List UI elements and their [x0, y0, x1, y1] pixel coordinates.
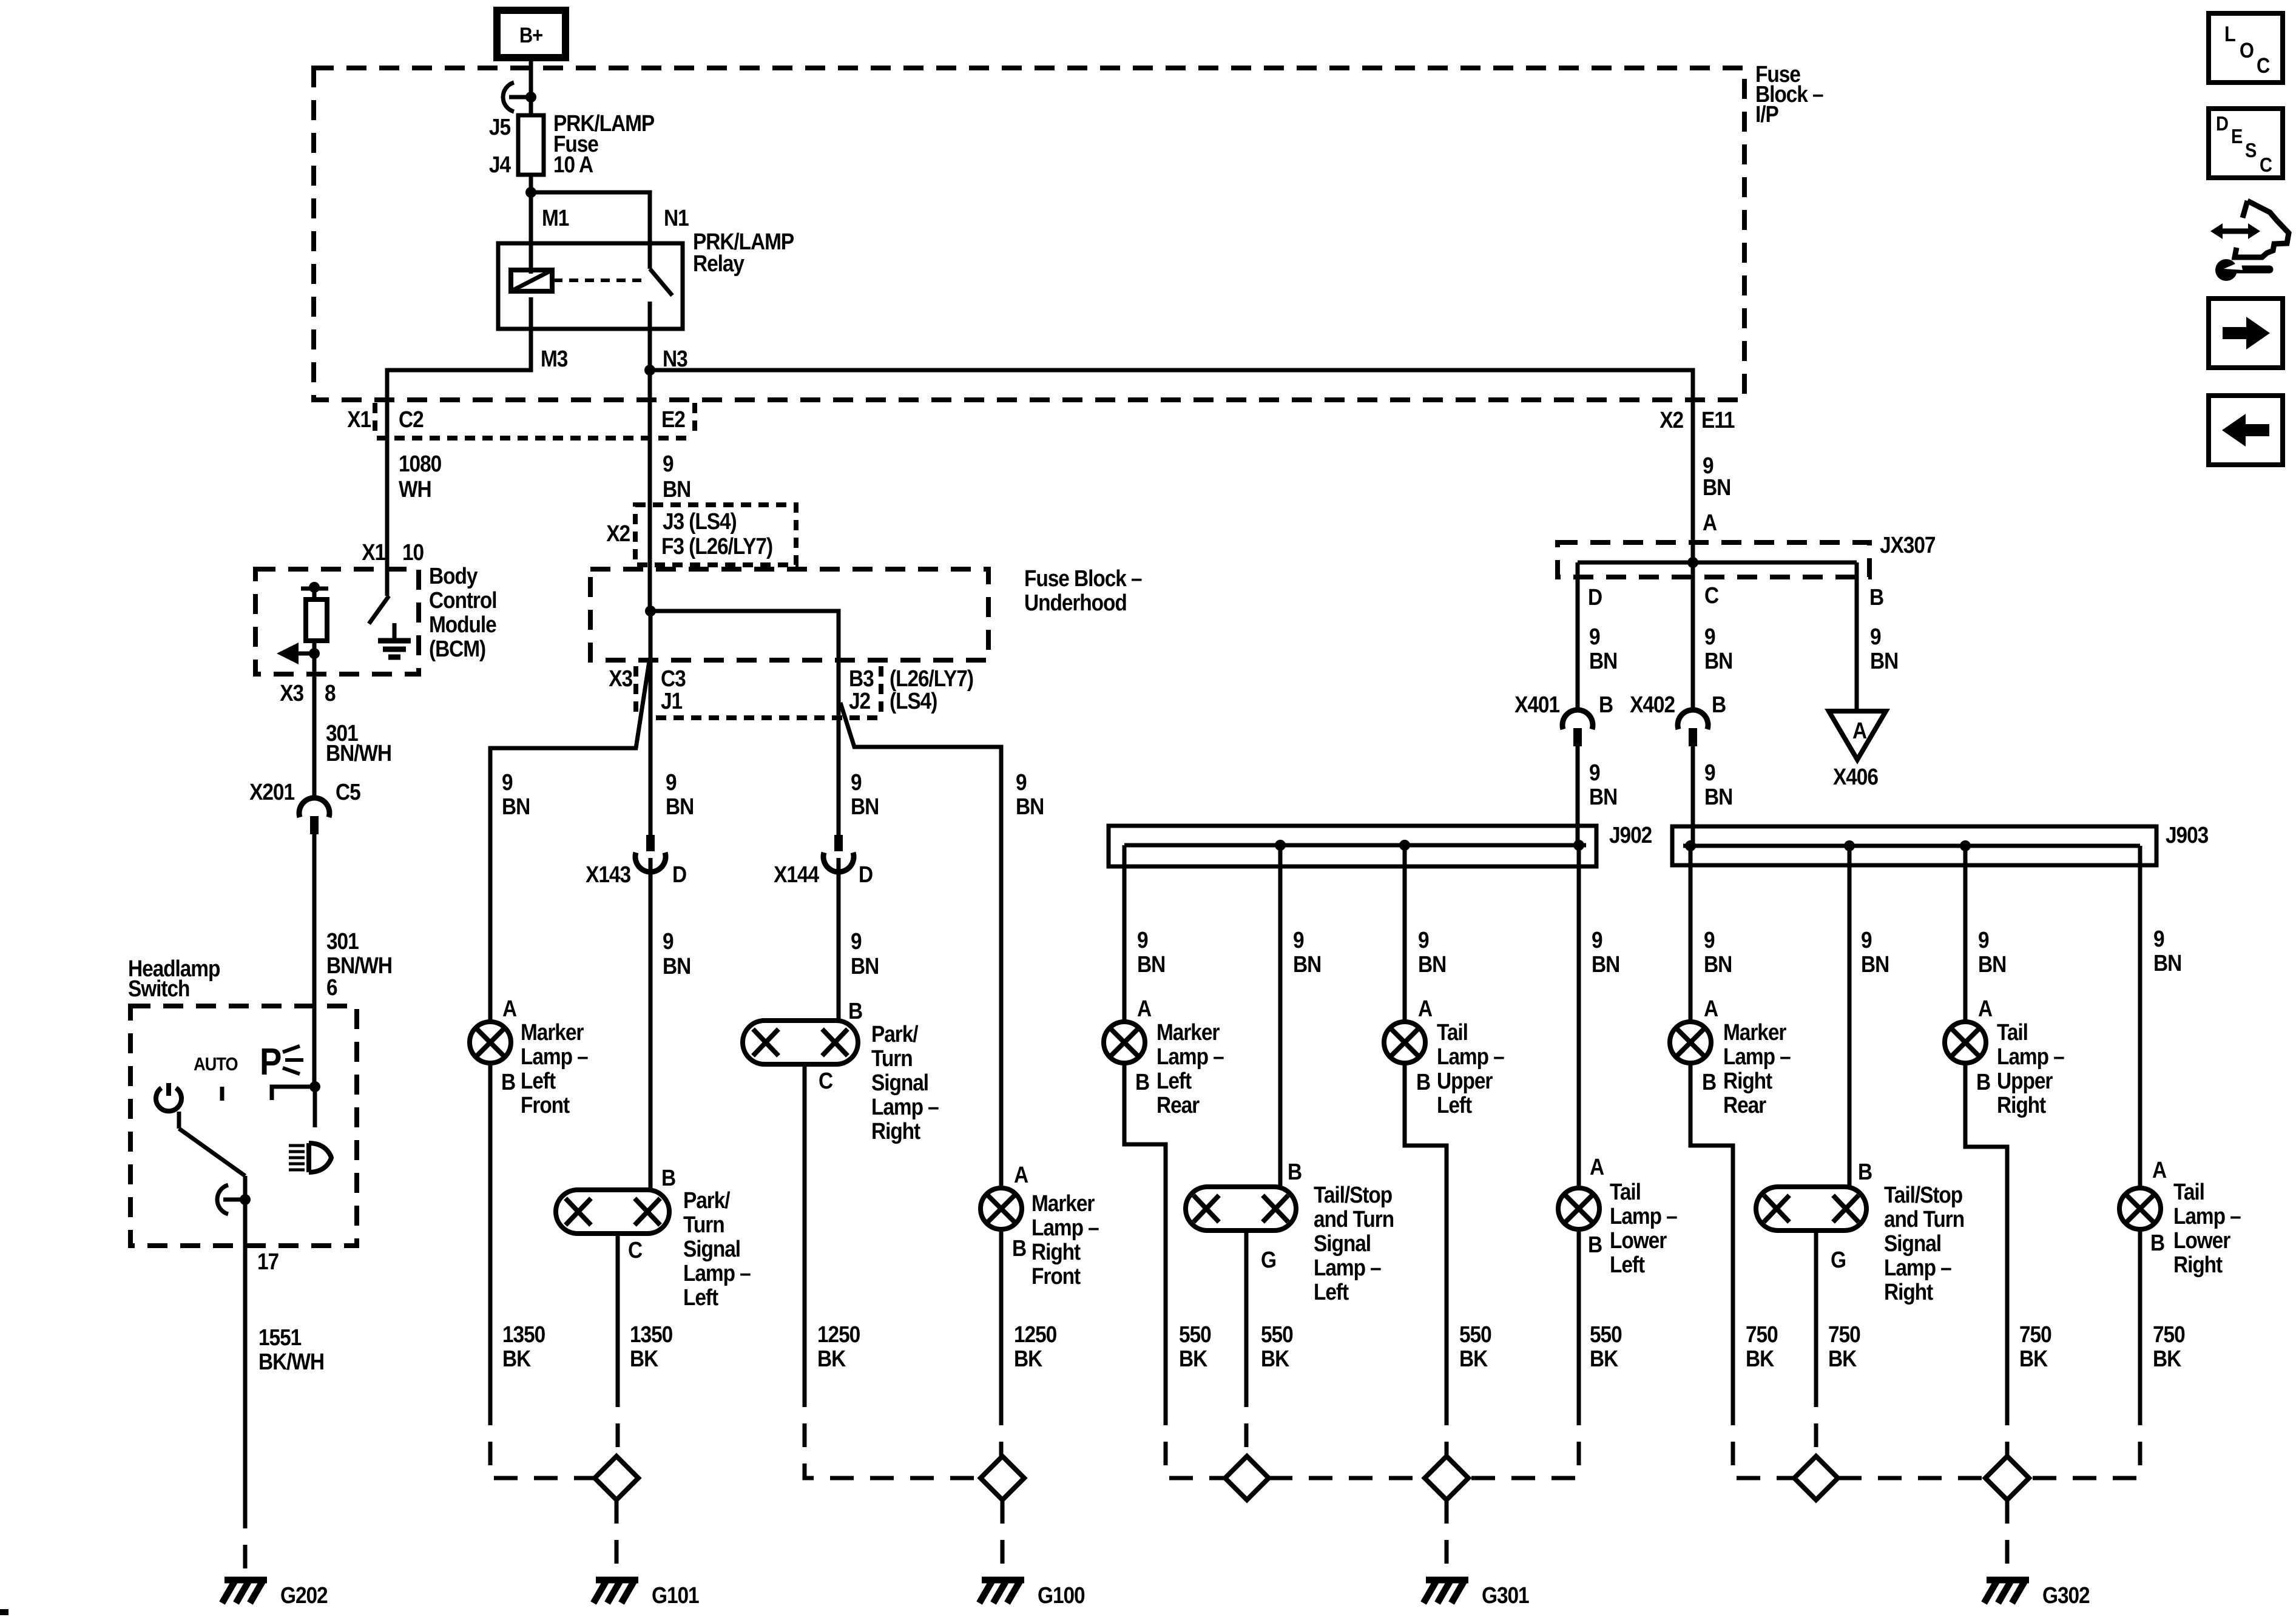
svg-text:750: 750 [2153, 1322, 2185, 1347]
wire: J1 branch to left front marker [490, 661, 649, 1022]
wire: marker LF to ground run [488, 1063, 493, 1402]
svg-text:BN: BN [851, 953, 879, 979]
svg-text:Marker: Marker [1032, 1190, 1095, 1216]
svg-text:BK: BK [817, 1346, 846, 1371]
splice pack J902 [1109, 826, 1596, 866]
svg-text:A: A [2152, 1157, 2166, 1183]
svg-text:Lamp –: Lamp – [1437, 1044, 1504, 1069]
svg-text:B: B [1599, 692, 1613, 717]
svg-text:E11: E11 [1701, 407, 1735, 433]
svg-text:A: A [1418, 996, 1432, 1021]
svg-text:301: 301 [326, 928, 359, 954]
svg-text:B: B [1976, 1069, 1990, 1095]
connector band X1 C2/E2 (fuse block I/P bottom) [377, 436, 689, 441]
svg-text:M3: M3 [541, 346, 568, 371]
svg-text:BN: BN [1978, 951, 2006, 977]
svg-text:9: 9 [1978, 927, 1989, 953]
JX307 bus [1578, 561, 1857, 565]
svg-text:Tail: Tail [1997, 1019, 2028, 1045]
off position symbol (power) [156, 1088, 181, 1111]
wire: X401 to J902 [1576, 746, 1580, 845]
svg-text:X1: X1 [362, 539, 385, 565]
svg-text:Lamp –: Lamp – [683, 1260, 751, 1286]
svg-text:B: B [1416, 1069, 1430, 1095]
svg-text:BK: BK [1746, 1346, 1774, 1371]
svg-text:X143: X143 [586, 862, 630, 887]
svg-text:X1: X1 [347, 407, 371, 432]
wire: BCM to X201 [312, 674, 317, 800]
ground G101 [596, 1577, 638, 1584]
svg-text:BN/WH: BN/WH [326, 740, 391, 766]
park/turn signal lamp left [556, 1190, 669, 1234]
in-line connector X201 C5 [299, 798, 329, 817]
svg-text:10 A: 10 A [553, 152, 593, 177]
svg-text:Lamp –: Lamp – [2173, 1203, 2241, 1229]
wire: J903 drop tail/stop right [1848, 846, 1852, 1187]
headlamp position symbol [289, 1144, 305, 1147]
marker lamp left front [470, 1022, 511, 1063]
svg-text:Left: Left [1437, 1092, 1472, 1118]
svg-text:17: 17 [257, 1249, 279, 1274]
wire: X143 to park/turn left [649, 870, 653, 1190]
ground G202 [225, 1577, 267, 1584]
wire: tail upper right jog [1965, 1063, 2007, 1402]
DESC navigation box [2209, 109, 2283, 178]
wire: fuse to relay (M1/N1 feed) [531, 175, 650, 274]
dashed: tail upper left to splice [1445, 1402, 1449, 1456]
svg-text:J2: J2 [849, 688, 870, 714]
dashed: G301 splice link [1269, 1476, 1425, 1480]
svg-text:Right: Right [2173, 1252, 2223, 1277]
tail/stop and turn signal lamp right [1756, 1187, 1866, 1230]
svg-text:G101: G101 [652, 1582, 699, 1608]
wire: switch to G202 (dashed) [243, 1505, 248, 1580]
J902 junction dots [1275, 840, 1286, 851]
svg-text:J3 (LS4): J3 (LS4) [663, 508, 737, 534]
tail lamp lower right [2119, 1188, 2161, 1229]
svg-text:AUTO: AUTO [194, 1054, 238, 1075]
wire: marker RF to ground run [999, 1229, 1004, 1402]
svg-text:Lamp –: Lamp – [1884, 1255, 1951, 1280]
ground G302 [1987, 1577, 2029, 1584]
svg-text:BN: BN [1592, 951, 1619, 977]
wire: marker LR jog [1124, 1063, 1166, 1402]
svg-text:BK: BK [502, 1346, 531, 1371]
svg-text:X401: X401 [1514, 692, 1559, 717]
svg-text:D: D [2216, 112, 2229, 135]
svg-text:J903: J903 [2166, 822, 2208, 848]
svg-text:B: B [1288, 1159, 1302, 1184]
svg-text:J5: J5 [489, 114, 510, 140]
svg-text:Right: Right [1032, 1239, 1081, 1264]
svg-text:C: C [819, 1068, 832, 1093]
svg-text:Right: Right [871, 1118, 920, 1144]
splice diamond (G101) [595, 1456, 638, 1500]
svg-text:D: D [1588, 584, 1602, 610]
splice diamond (G302 left) [1794, 1456, 1838, 1500]
svg-text:Tail: Tail [1610, 1179, 1641, 1204]
wire: tail upper left jog [1405, 1063, 1447, 1402]
svg-text:BK: BK [630, 1346, 658, 1371]
underhood junction [645, 606, 656, 616]
svg-text:9: 9 [1861, 927, 1872, 953]
svg-text:BN: BN [2153, 950, 2181, 976]
svg-text:Relay: Relay [693, 251, 745, 276]
junction below fuse [525, 187, 536, 198]
svg-text:Left: Left [683, 1284, 718, 1310]
connector X2 J3/F3 dashed box [635, 505, 796, 565]
marker lamp right rear [1670, 1022, 1711, 1063]
svg-text:A: A [1978, 996, 1992, 1021]
wire: B+ down to fuse [529, 58, 533, 115]
svg-text:X3: X3 [609, 666, 632, 691]
svg-text:Signal: Signal [1884, 1230, 1941, 1256]
svg-text:A: A [1704, 996, 1718, 1021]
svg-text:BN: BN [1418, 951, 1446, 977]
marker lamp right front [981, 1188, 1022, 1229]
svg-text:C2: C2 [399, 407, 424, 432]
ground G301 [1426, 1577, 1468, 1584]
page corner mark [0, 1609, 8, 1615]
svg-text:BN: BN [502, 794, 530, 819]
svg-text:9: 9 [1016, 769, 1027, 795]
tail lamp upper left [1384, 1022, 1425, 1063]
svg-text:BK: BK [1179, 1346, 1207, 1371]
splice diamond (G301 left) [1225, 1456, 1269, 1500]
svg-text:M1: M1 [542, 205, 569, 231]
svg-text:Turn: Turn [683, 1212, 724, 1237]
svg-text:Front: Front [1032, 1263, 1081, 1289]
junction N3 [644, 365, 655, 376]
svg-text:G: G [1831, 1247, 1846, 1272]
battery feed B+ terminal [497, 10, 566, 58]
svg-text:A: A [1852, 718, 1866, 743]
svg-text:J1: J1 [661, 688, 682, 714]
svg-text:Switch: Switch [128, 976, 189, 1001]
in-line connector X144 D [834, 835, 843, 851]
svg-text:Lamp –: Lamp – [1723, 1044, 1791, 1069]
svg-text:B: B [1135, 1069, 1149, 1095]
svg-text:Front: Front [521, 1092, 570, 1118]
svg-text:9: 9 [1870, 624, 1881, 649]
svg-text:BN: BN [1589, 648, 1617, 673]
svg-text:9: 9 [663, 928, 674, 954]
BCM internal node tick [301, 587, 328, 591]
dashed: tail lower left to splice [1468, 1402, 1579, 1478]
svg-text:I/P: I/P [1755, 101, 1778, 127]
marker lamp left rear [1104, 1022, 1145, 1063]
svg-text:10: 10 [402, 539, 424, 565]
wire: X201 to headlamp switch [312, 834, 317, 1087]
svg-text:BN: BN [1589, 784, 1617, 809]
BCM signal arrow [297, 652, 314, 656]
svg-text:9: 9 [1704, 927, 1715, 953]
wire: J902 drop tail lower left [1577, 845, 1581, 1188]
svg-text:X201: X201 [249, 779, 294, 805]
svg-text:BN: BN [1293, 951, 1321, 977]
svg-text:(LS4): (LS4) [890, 688, 937, 714]
in-line connector X401 B [1562, 710, 1593, 729]
BCM dashed outline [255, 569, 419, 674]
svg-text:C5: C5 [336, 779, 360, 805]
svg-text:1250: 1250 [817, 1322, 860, 1347]
svg-text:9: 9 [663, 451, 674, 476]
svg-text:Park/: Park/ [683, 1187, 731, 1213]
svg-text:Rear: Rear [1723, 1092, 1766, 1118]
dashed: tail/stop left to splice [1244, 1383, 1249, 1456]
svg-text:G302: G302 [2042, 1582, 2090, 1608]
svg-text:B: B [1869, 584, 1883, 610]
wrench icon [2237, 266, 2269, 274]
svg-text:750: 750 [2019, 1322, 2051, 1347]
fuse block underhood dashed outline [590, 569, 988, 660]
wire: J903 drop tail lower right [2138, 846, 2142, 1188]
dashed: tail/stop right to splice [1814, 1383, 1818, 1456]
svg-text:J4: J4 [489, 152, 511, 177]
svg-text:B: B [848, 998, 862, 1024]
svg-text:Right: Right [1884, 1279, 1933, 1305]
svg-text:Underhood: Underhood [1024, 590, 1127, 615]
in-line connector X402 B [1678, 710, 1708, 729]
svg-text:550: 550 [1179, 1322, 1211, 1347]
svg-text:Lower: Lower [1610, 1227, 1667, 1253]
svg-text:B: B [2150, 1230, 2164, 1255]
headlamp switch dashed outline [130, 1006, 357, 1246]
svg-text:Tail: Tail [1437, 1019, 1468, 1045]
wire: JX307 C to X402 [1691, 562, 1695, 712]
svg-text:Left: Left [1314, 1279, 1349, 1305]
LOC navigation box [2209, 13, 2283, 83]
svg-text:X2: X2 [1660, 407, 1683, 433]
svg-text:9: 9 [1592, 927, 1602, 953]
svg-text:1551: 1551 [258, 1325, 301, 1350]
in-line connector X143 D [646, 835, 655, 851]
svg-text:F3 (L26/LY7): F3 (L26/LY7) [661, 533, 772, 559]
wire: park contact stub [313, 1087, 317, 1127]
svg-text:G301: G301 [1482, 1582, 1529, 1608]
svg-text:Tail/Stop: Tail/Stop [1314, 1182, 1392, 1207]
svg-text:Marker: Marker [521, 1019, 584, 1045]
wire: park/turn right C to ground run [803, 1064, 807, 1383]
BCM driver switch [385, 569, 390, 596]
ground G100 [982, 1577, 1024, 1584]
svg-text:BK: BK [1014, 1346, 1042, 1371]
svg-text:Lamp –: Lamp – [1610, 1203, 1677, 1229]
svg-text:BN: BN [1704, 784, 1732, 809]
svg-text:1350: 1350 [630, 1322, 672, 1347]
svg-text:B: B [1702, 1069, 1716, 1095]
wire: J2 branch to right front marker [840, 703, 1001, 1188]
svg-text:A: A [1590, 1154, 1604, 1180]
svg-text:Lamp –: Lamp – [871, 1094, 939, 1119]
svg-text:BK: BK [1590, 1346, 1618, 1371]
dashed: marker LF to G101 splice [490, 1402, 595, 1478]
svg-text:N3: N3 [663, 346, 687, 371]
svg-text:Signal: Signal [871, 1070, 928, 1095]
svg-text:550: 550 [1261, 1322, 1293, 1347]
dashed: splice to G101 [615, 1500, 619, 1580]
svg-text:Signal: Signal [683, 1236, 740, 1261]
svg-text:BK: BK [1261, 1346, 1289, 1371]
svg-text:B: B [1588, 1232, 1602, 1257]
svg-text:X2: X2 [606, 521, 630, 546]
svg-text:Turn: Turn [871, 1045, 913, 1071]
svg-text:Lamp –: Lamp – [1032, 1215, 1099, 1240]
svg-text:8: 8 [325, 680, 336, 706]
svg-text:750: 750 [1746, 1322, 1778, 1347]
svg-text:6: 6 [326, 974, 337, 1000]
svg-text:9: 9 [1704, 624, 1715, 649]
svg-text:J902: J902 [1609, 822, 1652, 848]
svg-text:L: L [2224, 22, 2236, 46]
wire: park/turn left C to ground run [616, 1234, 620, 1383]
switch wiper arm [177, 1112, 181, 1129]
dashed: splice to G100 [1001, 1500, 1005, 1580]
wire: JX307 B to X406 [1855, 562, 1859, 711]
svg-text:Rear: Rear [1156, 1092, 1200, 1118]
svg-text:S: S [2245, 139, 2257, 161]
vehicle/hood icon with double arrow [2243, 201, 2247, 218]
tail lamp upper right [1945, 1022, 1986, 1063]
svg-text:X406: X406 [1833, 764, 1878, 789]
svg-text:Marker: Marker [1156, 1019, 1220, 1045]
svg-text:G: G [1261, 1247, 1276, 1272]
wire: J903 drop marker RR [1689, 846, 1693, 1022]
previous-page arrow box [2209, 396, 2283, 465]
svg-text:BK: BK [1828, 1346, 1857, 1371]
svg-text:9: 9 [2153, 926, 2164, 951]
svg-text:Control: Control [429, 587, 496, 613]
relay switch contact arm [650, 269, 672, 295]
svg-text:B: B [1712, 692, 1726, 717]
svg-text:and Turn: and Turn [1314, 1206, 1394, 1232]
wire: J902 drop tail/stop left [1278, 845, 1283, 1187]
wire: switch to G202 (solid) [243, 1200, 248, 1505]
svg-text:Right: Right [1997, 1092, 2046, 1118]
svg-text:Left: Left [1610, 1252, 1645, 1277]
splice diamond (G301 right) [1425, 1456, 1468, 1500]
svg-text:Left: Left [1156, 1068, 1192, 1093]
svg-text:BN: BN [663, 953, 690, 979]
svg-text:BN: BN [851, 794, 879, 819]
svg-text:9: 9 [1589, 624, 1600, 649]
svg-text:550: 550 [1459, 1322, 1491, 1347]
svg-text:Lamp –: Lamp – [1314, 1255, 1381, 1280]
park position contact [272, 1087, 315, 1100]
wire M3: relay to BCM [387, 329, 531, 578]
svg-text:B: B [1012, 1235, 1026, 1261]
svg-text:D: D [672, 862, 686, 887]
wire: J902 drop marker LR [1123, 845, 1127, 1022]
svg-text:BK: BK [1459, 1346, 1488, 1371]
dashed: tail lower right to splice [2029, 1402, 2140, 1478]
svg-text:BN: BN [1703, 474, 1730, 500]
svg-text:X3: X3 [280, 680, 303, 706]
svg-text:Body: Body [429, 563, 478, 589]
dashed: splice to G302 [2005, 1500, 2010, 1580]
svg-text:A: A [1137, 996, 1151, 1021]
svg-text:N1: N1 [664, 205, 689, 231]
svg-text:BK: BK [2019, 1346, 2048, 1371]
wire: underhood C3/J1 leg [649, 611, 653, 835]
svg-text:and Turn: and Turn [1884, 1206, 1964, 1232]
relay PRK/LAMP box [498, 243, 683, 329]
J903 junction dots [1685, 840, 1696, 851]
svg-text:Park/: Park/ [871, 1021, 919, 1047]
svg-text:B+: B+ [519, 23, 542, 47]
dashed: marker RR to G302 splice [1733, 1402, 1794, 1478]
dashed: marker LR to G301 splice [1166, 1402, 1225, 1478]
wire: J903 drop tail upper right [1963, 846, 1968, 1022]
dashed: splice to G301 [1445, 1500, 1449, 1580]
splice diamond (G302 right) [1985, 1456, 2029, 1500]
wire N3: relay to fuse blocks [650, 329, 1693, 611]
svg-text:Upper: Upper [1437, 1068, 1493, 1093]
svg-text:X144: X144 [774, 862, 819, 887]
svg-text:BN: BN [663, 476, 690, 502]
svg-text:E2: E2 [661, 407, 685, 432]
dashed: marker RF to splice [999, 1402, 1004, 1456]
svg-text:9: 9 [1589, 760, 1600, 785]
junction at switch park contact [309, 1081, 320, 1092]
dashed: tail upper right to splice [2005, 1402, 2010, 1456]
svg-text:A: A [502, 996, 516, 1021]
svg-text:1350: 1350 [502, 1322, 545, 1347]
dashed: G302 splice link [1838, 1476, 1985, 1480]
svg-text:Fuse Block –: Fuse Block – [1024, 565, 1142, 591]
svg-text:A: A [1703, 510, 1717, 535]
svg-text:Tail: Tail [2173, 1179, 2204, 1204]
svg-text:Tail/Stop: Tail/Stop [1884, 1182, 1962, 1207]
svg-text:9: 9 [1293, 927, 1304, 953]
svg-text:BN: BN [1016, 794, 1044, 819]
connector band X3 (underhood bottom) [656, 715, 878, 720]
svg-text:C: C [1704, 582, 1718, 608]
svg-text:9: 9 [502, 769, 513, 795]
wire: marker RR jog [1690, 1063, 1733, 1402]
relay coil-switch dashed link [553, 279, 646, 282]
svg-text:Module: Module [429, 612, 496, 637]
svg-text:Upper: Upper [1997, 1068, 2053, 1093]
dashed: park/turn left to splice [616, 1383, 620, 1456]
svg-text:1250: 1250 [1014, 1322, 1056, 1347]
svg-text:550: 550 [1590, 1322, 1622, 1347]
tail lamp lower left [1558, 1188, 1599, 1229]
svg-text:D: D [859, 862, 873, 887]
svg-text:WH: WH [399, 476, 431, 502]
svg-text:G202: G202 [280, 1582, 328, 1608]
svg-text:Signal: Signal [1314, 1230, 1371, 1256]
wire: J902 drop tail upper left [1403, 845, 1407, 1022]
svg-text:Right: Right [1723, 1068, 1772, 1093]
svg-text:B: B [661, 1165, 675, 1190]
svg-text:9: 9 [1137, 927, 1148, 953]
fuse feed clip [509, 95, 531, 100]
svg-text:Lamp –: Lamp – [1997, 1044, 2064, 1069]
wire: tail lower left to ground run [1577, 1229, 1581, 1402]
svg-text:X402: X402 [1630, 692, 1675, 717]
svg-text:9: 9 [851, 928, 862, 954]
next-page arrow box [2209, 299, 2283, 368]
relay coil [511, 270, 552, 291]
svg-text:9: 9 [1704, 760, 1715, 785]
BCM internal ground [393, 623, 397, 641]
connector X406 A [1829, 711, 1886, 760]
svg-text:B: B [501, 1069, 515, 1095]
svg-text:G100: G100 [1038, 1582, 1085, 1608]
BCM pull-up resistor [312, 589, 317, 599]
tail/stop and turn signal lamp left [1186, 1187, 1296, 1230]
